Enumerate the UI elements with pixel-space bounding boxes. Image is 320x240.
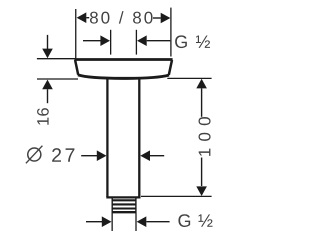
label 100 rotated	[199, 117, 211, 156]
escutcheon plate top edge	[74, 58, 172, 61]
right arrowhead of diameter 27	[97, 150, 107, 161]
left arrowhead of bottom G1/2	[102, 216, 112, 227]
up arrow tail of 16 dimension	[47, 89, 49, 103]
extension line left of top G1/2 thread	[110, 30, 112, 55]
label 16 rotated	[37, 108, 49, 125]
label diameter 27	[26, 146, 43, 164]
extension line top of 100 dimension (ceiling line right)	[167, 77, 211, 79]
label G 1/2 top	[175, 35, 210, 48]
escutcheon plate bottom rim	[78, 75, 169, 78]
thread left edge	[111, 199, 113, 214]
right arrowhead of bottom G1/2	[137, 216, 147, 227]
pipe right edge	[138, 78, 140, 198]
pipe end cap	[106, 196, 140, 198]
arrowhead right of 80/80 dimension	[161, 13, 171, 24]
label G 1/2 bottom	[178, 214, 212, 227]
tail of right diameter 27 arrow	[150, 155, 164, 157]
leader tail of diameter 27	[81, 155, 97, 157]
thread bar 4 bottom cap	[112, 211, 137, 213]
extension line bottom of 100 dimension	[141, 195, 212, 197]
dimension tail left 80/80	[86, 17, 89, 19]
extension line bottom of 16 dimension (ceiling line left)	[37, 78, 78, 80]
label 80 / 80	[90, 11, 153, 23]
right arrowhead of top G1/2 dimension	[137, 35, 147, 46]
lower tail of 100 dimension	[201, 158, 203, 187]
dimension tail right 80/80	[153, 17, 161, 19]
down arrowhead of 16 dimension	[42, 49, 53, 59]
upper tail of 100 dimension	[201, 88, 203, 116]
thread bar 3	[112, 207, 137, 209]
escutcheon plate left side	[75, 60, 78, 75]
extension line right of 80/80 dimension	[170, 8, 172, 57]
extension line right of bottom G1/2	[135, 213, 137, 231]
extension line left of bottom G1/2	[111, 213, 113, 231]
thread right edge	[135, 199, 137, 214]
left arrowhead of top G1/2 dimension	[100, 35, 110, 46]
up arrowhead of 16 dimension	[42, 80, 53, 90]
right arrow tail of top G1/2 dimension	[147, 40, 171, 42]
extension line left of 80/80 dimension	[75, 9, 77, 59]
extension line right of top G1/2 thread	[135, 30, 137, 55]
right arrow tail of bottom G1/2	[146, 221, 169, 223]
left arrow tail of top G1/2 dimension	[83, 40, 101, 42]
escutcheon plate right side	[169, 60, 172, 75]
thread bar 2	[112, 203, 137, 205]
pipe left edge	[106, 78, 108, 198]
extension line top of 16 dimension	[37, 58, 75, 60]
down arrow tail of 16 dimension	[47, 35, 49, 49]
up arrowhead of 100 dimension	[196, 79, 207, 89]
down arrowhead of 100 dimension	[196, 186, 207, 196]
arrowhead left of 80/80 dimension	[77, 12, 87, 23]
left arrow tail of bottom G1/2	[86, 221, 102, 223]
thread bar 1	[112, 199, 137, 201]
left arrowhead on pipe right edge diameter 27	[140, 150, 150, 161]
